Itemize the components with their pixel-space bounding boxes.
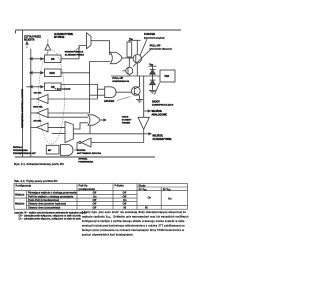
svg-text:Off: Off: [93, 205, 97, 209]
svg-text:WEWNĘTRZNA MAGISTRALA DANYCH: WEWNĘTRZNA MAGISTRALA DANYCH: [21, 89, 24, 128]
svg-text:mentacji technicznej konkretne: mentacji technicznej konkretnego mikroko…: [82, 224, 185, 227]
svg-text:(sterowanie prądem): (sterowanie prądem): [144, 36, 165, 39]
svg-text:ZEWNĘTRZNEGO INT: ZEWNĘTRZNEGO INT: [13, 152, 36, 155]
svg-text:* Porty typu „true open drain": * Porty typu „true open drain" nie posia…: [82, 211, 186, 214]
svg-text:WEJŚCIE: WEJŚCIE: [152, 110, 163, 113]
svg-text:TRIGER: TRIGER: [122, 123, 131, 125]
svg-text:On: On: [93, 194, 97, 198]
svg-text:Konfiguracja: Konfiguracja: [16, 184, 32, 188]
svg-text:KONFIGURACJA: KONFIGURACJA: [112, 80, 129, 83]
svg-text:Rys. 2.1. Schemat blokowy port: Rys. 2.1. Schemat blokowy portu I/O: [14, 162, 65, 166]
svg-text:DDR SEL: DDR SEL: [33, 107, 43, 109]
svg-text:On: On: [148, 196, 152, 200]
svg-text:I-BUFER: I-BUFER: [104, 100, 114, 103]
svg-text:(sterowanie włączane): (sterowanie włączane): [150, 47, 172, 50]
svg-text:(podłączenie): (podłączenie): [79, 187, 95, 191]
svg-text:OR SEL: OR SEL: [34, 93, 43, 95]
svg-text:Off – zabezpieczenie wyłączone: Off – zabezpieczenie wyłączone, odłączon…: [19, 215, 82, 218]
svg-text:P-Bufer: P-Bufer: [115, 184, 124, 188]
svg-text:CMOS: CMOS: [122, 117, 129, 119]
svg-text:konfiguracji w każdym z portów: konfiguracji w każdym z portów danego uk…: [82, 220, 185, 223]
svg-text:PULL-UP: PULL-UP: [150, 44, 161, 47]
svg-text:INT: INT: [48, 150, 52, 152]
svg-text:WYBÓR: WYBÓR: [77, 149, 86, 152]
svg-text:WEJŚCIE: WEJŚCIE: [153, 135, 164, 138]
svg-text:PAD: PAD: [165, 75, 170, 78]
svg-text:NI: NI: [124, 205, 127, 209]
svg-text:DR: DR: [51, 58, 55, 61]
svg-text:Wejście: Wejście: [15, 192, 25, 196]
svg-text:Otwarty dren (poziom logiczny): Otwarty dren (poziom logiczny): [28, 202, 66, 206]
svg-text:bieżąco przez producenta na st: bieżąco przez producenta na stronach int…: [82, 229, 184, 232]
svg-text:ZABEZPIECZAJĄCE: ZABEZPIECZAJĄCE: [152, 104, 174, 107]
svg-text:Off: Off: [123, 194, 127, 198]
svg-text:ŹRÓDŁO: ŹRÓDŁO: [13, 146, 23, 149]
svg-text:NI: NI: [145, 205, 148, 209]
svg-text:PRZERWANIA: PRZERWANIA: [78, 160, 93, 163]
svg-text:Legenda: W – wejście synchron: Legenda: W – wejście synchronizowane wew…: [14, 211, 87, 214]
svg-text:(port odczytu): (port odczytu): [57, 88, 71, 91]
svg-text:Off: Off: [123, 202, 127, 206]
svg-text:Diody: Diody: [139, 184, 147, 188]
svg-text:Off: Off: [123, 191, 127, 195]
svg-text:On – zabezpieczenie włączone,: On – zabezpieczenie włączone, podłączone…: [19, 218, 82, 221]
svg-text:Tab. 2.1. Tryby pracy portów I: Tab. 2.1. Tryby pracy portów I/O: [14, 179, 58, 183]
svg-text:AKTYWNEGO ZBOCZA: AKTYWNEGO ZBOCZA: [77, 152, 102, 155]
svg-text:Off: Off: [93, 202, 97, 206]
svg-text:Wyjście: Wyjście: [15, 201, 25, 205]
svg-text:CZYTAJ PRZEZ: CZYTAJ PRZEZ: [24, 35, 42, 38]
svg-text:do VDD: do VDD: [139, 187, 148, 191]
svg-text:WYBÓR FUNKCJI: WYBÓR FUNKCJI: [65, 50, 84, 53]
svg-text:SYGNAŁ: SYGNAŁ: [78, 158, 88, 161]
svg-text:On: On: [168, 197, 172, 201]
svg-text:napięcia zasilania VDD . Dokła: napięcia zasilania VDD . Dokładny opis w…: [82, 215, 189, 218]
svg-text:Off: Off: [93, 198, 97, 202]
svg-text:OR: OR: [51, 86, 55, 89]
svg-text:Pull-Up wejście z obsługą prze: Pull-Up wejście z obsługą przerwania: [28, 194, 74, 198]
svg-text:do VSS: do VSS: [163, 187, 172, 191]
svg-text:ALTERNATYWNE: ALTERNATYWNE: [153, 138, 172, 141]
svg-text:DR SEL: DR SEL: [34, 121, 43, 123]
svg-text:On: On: [123, 198, 127, 202]
svg-text:REJESTR: REJESTR: [24, 40, 35, 42]
svg-text:DIODY: DIODY: [152, 101, 160, 104]
svg-text:ALTERNATYWNE: ALTERNATYWNE: [54, 33, 73, 36]
svg-text:PRZERWANIA: PRZERWANIA: [13, 149, 28, 152]
svg-text:Pływające wejście z obsługą pr: Pływające wejście z obsługą przerwania: [28, 191, 77, 195]
svg-text:ALTERNATYWNEJ: ALTERNATYWNEJ: [65, 54, 85, 57]
svg-text:WYJŚCIE: WYJŚCIE: [54, 36, 65, 39]
svg-text:PULL-UP: PULL-UP: [112, 77, 123, 80]
svg-text:Push-Pull (przeciwsobne): Push-Pull (przeciwsobne): [28, 198, 59, 202]
svg-text:Otwarty dren (rzeczywisty): Otwarty dren (rzeczywisty): [28, 205, 60, 209]
svg-text:DDR: DDR: [50, 72, 55, 75]
svg-text:SCHMITT: SCHMITT: [122, 120, 132, 122]
svg-text:ANALOGOWE: ANALOGOWE: [152, 113, 168, 116]
svg-text:Off: Off: [93, 191, 97, 195]
svg-text:Pull-Up: Pull-Up: [79, 184, 88, 188]
svg-text:P-BUFER: P-BUFER: [144, 33, 155, 36]
svg-text:postaci odpowiednich kart kata: postaci odpowiednich kart katalogowych.: [82, 233, 134, 236]
